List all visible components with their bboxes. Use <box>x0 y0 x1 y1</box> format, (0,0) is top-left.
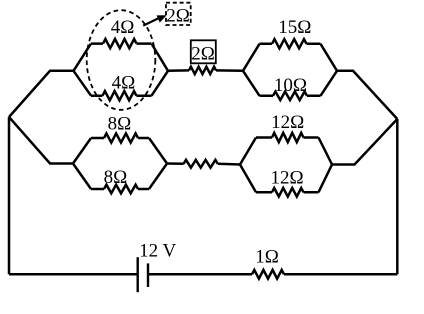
wire from 2-ohm to 15/10 group <box>216 69 243 72</box>
wire diagonal to top row <box>9 71 74 117</box>
svg-text:2Ω: 2Ω <box>166 5 190 26</box>
svg-text:2Ω: 2Ω <box>191 44 215 65</box>
svg-text:12Ω: 12Ω <box>270 168 303 189</box>
svg-text:15Ω: 15Ω <box>278 17 311 38</box>
wire bottom right of battery <box>149 273 252 276</box>
node G 12-ohm group left <box>240 138 256 193</box>
wire 10-ohm leads <box>260 95 321 98</box>
resistor 12ohm bottom <box>272 188 304 197</box>
battery 12V short plate <box>147 263 149 287</box>
resistor 2ohm series <box>189 67 216 74</box>
wire to middle series resistor <box>167 162 184 165</box>
svg-text:8Ω: 8Ω <box>104 167 128 188</box>
resistor 1ohm <box>252 270 284 279</box>
wire 12-ohm bottom leads <box>256 191 319 194</box>
wire to 12-ohm group <box>218 163 240 166</box>
svg-text:8Ω: 8Ω <box>108 114 132 135</box>
wire top right to corner <box>337 71 397 119</box>
node C 15/10 group left <box>243 44 260 96</box>
dashed ellipse around 4-ohm pair <box>87 10 156 110</box>
node B 4-ohm group right <box>152 44 169 96</box>
resistor 12ohm top <box>272 133 304 142</box>
wire left vertical <box>8 117 11 274</box>
node H 12-ohm group right <box>319 138 333 193</box>
arrow to dashed 2-ohm box <box>143 16 165 26</box>
svg-text:1Ω: 1Ω <box>255 247 279 268</box>
node F 8-ohm group right <box>149 138 167 189</box>
resistor middle series <box>184 160 218 168</box>
svg-text:10Ω: 10Ω <box>274 75 307 96</box>
node D 15/10 group right <box>321 44 338 96</box>
svg-text:4Ω: 4Ω <box>111 17 135 38</box>
wire bottom left <box>9 273 137 276</box>
dashed box 2-ohm label <box>166 3 191 25</box>
wire 4-ohm top leads <box>91 42 152 45</box>
wire 15-ohm leads <box>260 43 321 46</box>
svg-text:12Ω: 12Ω <box>271 112 304 133</box>
wire middle right to corner <box>332 119 397 165</box>
resistor 8ohm top <box>104 133 138 142</box>
svg-text:12 V: 12 V <box>139 241 176 262</box>
resistor 4ohm bottom <box>103 91 137 100</box>
node E 8-ohm group left <box>73 138 91 189</box>
wire 12-ohm top leads <box>256 136 319 139</box>
resistor 10ohm <box>273 92 307 101</box>
wire bottom far right <box>284 273 397 276</box>
battery 12V long plate <box>136 257 138 292</box>
wire 8-ohm bottom leads <box>91 188 149 191</box>
wire to series 2-ohm resistor <box>168 69 189 72</box>
resistor 8ohm bottom <box>104 185 138 194</box>
node A 4-ohm group left <box>74 44 92 96</box>
wire 4-ohm bottom leads <box>91 94 152 97</box>
resistor 15ohm <box>272 39 307 48</box>
wire right vertical <box>396 119 399 274</box>
box 2-ohm label <box>191 40 216 63</box>
wire 8-ohm top leads <box>91 137 149 140</box>
resistor 4ohm top <box>103 39 137 48</box>
wire diagonal to middle row <box>9 117 73 164</box>
svg-text:4Ω: 4Ω <box>112 73 136 94</box>
